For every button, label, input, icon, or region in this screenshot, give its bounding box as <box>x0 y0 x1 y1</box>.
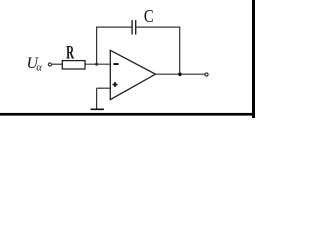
right border line <box>252 0 255 118</box>
ground bar <box>91 108 105 110</box>
wire input terminal to resistor <box>52 63 63 65</box>
output terminal circle <box>205 73 208 76</box>
op-amp inverting input minus sign <box>113 63 118 65</box>
wire feedback top left segment <box>96 26 131 28</box>
node junction dot at feedback tap <box>95 63 98 66</box>
node junction dot at output <box>178 73 182 77</box>
svg-text:C: C <box>144 8 154 26</box>
wire feedback top right segment <box>136 26 180 28</box>
input terminal circle <box>48 63 51 66</box>
wire feedback right vertical <box>179 27 181 74</box>
op-amp non-inverting input plus sign <box>113 82 118 87</box>
wire feedback left vertical <box>96 27 98 64</box>
resistor R1 body <box>62 61 85 69</box>
capacitor C left plate <box>131 20 133 34</box>
svg-text:R: R <box>66 43 75 64</box>
wire non-inverting input down to ground <box>96 88 98 108</box>
bottom border line <box>0 113 255 116</box>
capacitor C right plate <box>135 20 137 34</box>
wire resistor to op-amp inverting input <box>85 63 110 65</box>
op-amp U1 triangle <box>110 50 155 99</box>
wire op-amp output <box>156 73 205 75</box>
svg-text:α: α <box>36 63 42 74</box>
wire non-inverting input horizontal <box>97 87 111 89</box>
